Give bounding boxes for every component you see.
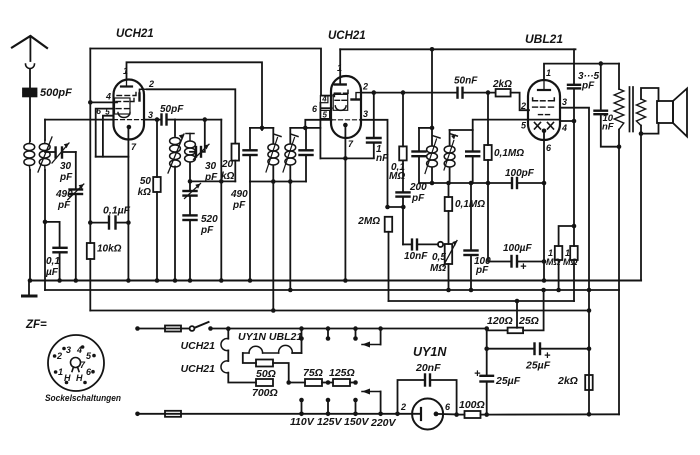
wire mains top [135, 326, 140, 331]
grid dashes U3 [533, 98, 538, 101]
capacitor 50pF [160, 115, 162, 125]
speaker LS [657, 101, 673, 123]
capacitor IF1 right [305, 128, 307, 150]
capacitor 1nF [373, 93, 375, 137]
svg-text:20nF: 20nF [415, 362, 441, 374]
transformer core [629, 87, 631, 132]
svg-text:UCH21: UCH21 [181, 363, 216, 375]
pentode plate U3 [543, 80, 545, 90]
svg-text:6: 6 [312, 104, 318, 114]
wire IF1 top rail right [290, 127, 320, 129]
capacitor 520pF [184, 214, 197, 216]
node pin2 [395, 412, 400, 417]
svg-text:0,5: 0,5 [432, 252, 446, 263]
wire mains top continues [211, 328, 487, 330]
svg-text:25µF: 25µF [495, 375, 521, 387]
heater UCH21 b [221, 361, 228, 373]
wire tank row [190, 180, 235, 182]
node pin4 junction [88, 100, 93, 105]
wire pin7 cathode down [127, 127, 129, 281]
svg-text:6: 6 [96, 106, 101, 116]
node [43, 220, 48, 225]
wire secondary to speaker [641, 88, 659, 101]
svg-text:7: 7 [131, 142, 137, 152]
capacitor 25uF lower [486, 329, 488, 376]
svg-text:pF: pF [232, 200, 246, 211]
tube U4 UY1N [412, 399, 443, 430]
triode plate U2 [335, 83, 346, 85]
svg-text:1: 1 [58, 367, 63, 377]
wire antenna to coil [29, 97, 31, 142]
wire IF2 top rail left [419, 127, 432, 129]
pin 3 dashed through tube [114, 119, 145, 121]
resistor 2k output [585, 375, 593, 390]
resistor 125 [333, 379, 350, 386]
svg-text:6: 6 [546, 143, 552, 153]
svg-text:7: 7 [348, 139, 354, 149]
svg-text:10kΩ: 10kΩ [97, 244, 122, 255]
svg-text:ZF=: ZF= [25, 319, 47, 331]
wire 0,1M col to 100uF row [488, 183, 510, 262]
svg-text:MΩ: MΩ [563, 257, 578, 267]
svg-text:UCH21: UCH21 [328, 30, 366, 42]
svg-text:kΩ: kΩ [221, 171, 235, 182]
resistor 700 [256, 379, 273, 386]
selector arm bottom [380, 392, 382, 414]
svg-text:UCH21: UCH21 [181, 340, 216, 352]
svg-text:110V: 110V [290, 416, 315, 428]
node on grid column [88, 220, 93, 225]
selector arm top [380, 329, 382, 345]
svg-text:2: 2 [400, 402, 406, 412]
wire osc loop right [220, 120, 222, 281]
svg-text:2MΩ: 2MΩ [357, 216, 380, 227]
svg-text:120Ω: 120Ω [487, 315, 513, 327]
svg-text:pF: pF [59, 172, 73, 183]
capacitor IF1 left [249, 128, 251, 150]
transformer T secondary zigzag [636, 99, 645, 126]
resistor 0,1M det [445, 197, 453, 211]
wire 25uF2 row [487, 348, 533, 350]
svg-text:4: 4 [105, 92, 111, 102]
hexode box U2 [333, 94, 348, 110]
pin 3 wire [560, 108, 589, 415]
capacitor IF2 left [418, 128, 420, 151]
svg-text:pF: pF [200, 225, 214, 236]
svg-text:520: 520 [201, 214, 218, 225]
svg-text:50: 50 [140, 176, 152, 187]
pin 6 wire U2 [320, 107, 331, 109]
resistor 20k [232, 144, 240, 161]
svg-text:UY1N: UY1N [413, 345, 447, 359]
tube U1 UCH21 envelope [114, 80, 145, 140]
node output line [587, 412, 592, 417]
tube U3 UBL21 envelope [528, 80, 560, 140]
svg-text:+: + [474, 368, 481, 380]
svg-text:2kΩ: 2kΩ [492, 79, 512, 90]
svg-text:25Ω: 25Ω [518, 315, 539, 327]
wire detector line y=183 [419, 182, 511, 184]
svg-text:2kΩ: 2kΩ [557, 375, 578, 387]
svg-text:pF: pF [411, 193, 425, 204]
wire dropper row [289, 382, 305, 384]
wire pin2 out [361, 92, 458, 94]
transformer T primary zigzag [614, 89, 624, 130]
wire IF1 secondary to bus B [289, 182, 291, 291]
wire pin2 to 20k [147, 89, 235, 143]
svg-text:75Ω: 75Ω [303, 367, 323, 379]
coil L2 antenna secondary [39, 144, 50, 151]
pin 4 wire U2 [321, 95, 332, 97]
coil IF1 primary [272, 128, 274, 144]
capacitor 100pF series [511, 178, 513, 188]
svg-text:100µF: 100µF [503, 243, 532, 254]
wire grid line to osc coil [175, 119, 221, 121]
svg-text:100Ω: 100Ω [459, 399, 485, 411]
capacitor 100uF [510, 256, 512, 267]
node grid line / 50pF [155, 117, 160, 122]
svg-text:490: 490 [55, 189, 73, 200]
svg-text:3: 3 [66, 345, 71, 355]
coil IF2 primary [431, 128, 433, 146]
grid dashes U2 [336, 92, 341, 94]
svg-text:2: 2 [362, 82, 368, 92]
capacitor 200pF [397, 191, 410, 193]
coil IF2 secondary [449, 130, 451, 146]
wire pin7 down [344, 124, 346, 281]
svg-text:UY1N UBL21: UY1N UBL21 [238, 331, 302, 343]
capacitor 500pF [23, 89, 37, 92]
node [74, 278, 79, 283]
svg-text:Sockelschaltungen: Sockelschaltungen [45, 393, 121, 404]
svg-text:pF: pF [57, 200, 71, 211]
wire secondary to pin5 [473, 120, 559, 130]
svg-text:0,1: 0,1 [46, 256, 60, 267]
coil L4 osc secondary [186, 133, 194, 135]
wire B+ output row [487, 413, 619, 415]
hexode grids U1 [116, 101, 121, 103]
ground [28, 281, 30, 295]
svg-text:5: 5 [86, 351, 92, 361]
svg-text:4: 4 [561, 123, 567, 133]
wire coil to ground bus [29, 170, 31, 281]
switch S [190, 326, 195, 331]
plate bar U2 pin2 [352, 98, 361, 100]
wire IF1 left cap to ground [249, 182, 251, 281]
socket circle [48, 335, 104, 391]
capacitor 50nF [456, 88, 458, 98]
voltage stubs bottom [301, 400, 303, 414]
capacitor 100pF to bus [470, 183, 472, 250]
antenna [12, 36, 47, 48]
svg-text:pF: pF [475, 265, 489, 276]
tube U2 UCH21 envelope [331, 76, 361, 138]
wire coil L2 top to grid line [44, 120, 46, 140]
wire grid coupling line y=222.6 [90, 222, 109, 224]
voltage selector stubs top [301, 329, 303, 339]
coil L3 osc primary [174, 120, 176, 136]
wire trimmer to padder [75, 152, 77, 189]
svg-text:MΩ: MΩ [546, 257, 561, 267]
resistor 120/25 tapped [508, 328, 523, 334]
svg-text:220V: 220V [370, 417, 397, 429]
wire secondary bottom to ground bus [640, 134, 642, 281]
wire grid line to tube2 [305, 120, 331, 128]
resistor 10k [87, 243, 95, 259]
capacitor 490pF padder [70, 188, 83, 190]
node top bus right [599, 61, 604, 66]
svg-text:MΩ: MΩ [430, 263, 446, 274]
pin 5 wire [103, 116, 114, 157]
svg-text:30: 30 [205, 161, 217, 172]
svg-text:1: 1 [337, 63, 342, 73]
grid dashes U1 [117, 95, 122, 97]
resistor 0,1M pin2 [402, 93, 404, 147]
resistor 1M left [559, 226, 574, 246]
wire padder to ground bus [75, 194, 77, 281]
wire pin1 top [127, 62, 263, 130]
wire ground bus [29, 279, 641, 281]
wire grid line y=119.6 [45, 119, 113, 121]
capacitor 10nF tone [600, 64, 602, 110]
wire 10k to bus C [89, 259, 91, 311]
resistor 75 [305, 379, 322, 386]
svg-text:1: 1 [546, 68, 551, 78]
svg-text:MΩ: MΩ [389, 171, 405, 182]
cathode U3 [542, 129, 547, 134]
wire bus D [389, 300, 575, 302]
resistor 100 [457, 414, 465, 416]
wire primary bottom down [618, 130, 620, 147]
fuse bottom [165, 411, 181, 417]
resistor 1M right [570, 246, 578, 260]
wire IF1 primary to bus C [272, 182, 274, 311]
wire pin4 col down [573, 121, 575, 246]
svg-text:6: 6 [86, 367, 92, 377]
capacitor 30pF trimmer [45, 151, 56, 153]
coil L1 antenna primary [24, 144, 35, 151]
capacitor 30pF osc trimmer [190, 151, 196, 153]
capacitor IF2 right [472, 130, 474, 151]
capacitor 20nF [398, 380, 425, 414]
cathode U1 [127, 125, 132, 130]
triode plate bar U1 pin2 [138, 94, 140, 101]
capacitor 490pF osc [184, 190, 197, 192]
node osc tank [188, 179, 193, 184]
svg-text:1: 1 [123, 66, 128, 76]
svg-text:UBL21: UBL21 [525, 32, 563, 46]
resistor 0,1M agc [487, 93, 489, 145]
svg-text:UCH21: UCH21 [116, 28, 154, 40]
potentiometer 0,5M wiper [438, 242, 443, 247]
resistor 2M [385, 217, 393, 232]
pin 5 wire U2 [320, 96, 328, 103]
diodes U3 [535, 123, 541, 130]
wire pin6 down [543, 131, 545, 281]
svg-text:3: 3 [562, 97, 567, 107]
pin 6 wire [96, 109, 114, 157]
svg-text:490: 490 [230, 189, 248, 200]
svg-text:2: 2 [520, 101, 526, 111]
svg-text:0,1µF: 0,1µF [103, 205, 131, 217]
capacitor 3..5pF [573, 49, 575, 84]
svg-text:30: 30 [60, 161, 72, 172]
svg-text:500pF: 500pF [40, 87, 72, 99]
svg-text:5: 5 [323, 111, 328, 120]
wire bus B [45, 289, 619, 291]
wire top bus segment A [90, 49, 321, 96]
svg-text:700Ω: 700Ω [252, 387, 278, 399]
svg-text:pF: pF [581, 81, 595, 92]
capacitor 10nF [411, 240, 413, 250]
resistor 50k [156, 120, 158, 177]
svg-text:3: 3 [148, 110, 153, 120]
capacitor 25uF upper [533, 344, 535, 355]
wire top right corner [618, 64, 620, 89]
wire coil L2 bottom down to bus B [44, 170, 46, 290]
svg-text:50nF: 50nF [454, 76, 478, 87]
wire osc grid column [89, 49, 91, 244]
pin 4 wire [560, 120, 574, 122]
svg-text:150V: 150V [344, 416, 370, 428]
cathode U2 [343, 123, 348, 128]
heater UCH21 a [227, 329, 229, 339]
svg-text:5: 5 [521, 121, 527, 131]
svg-text:H: H [64, 373, 71, 383]
svg-text:25µF: 25µF [525, 360, 551, 372]
wire IF2 top rail right [450, 129, 473, 131]
triode plate U1 [126, 79, 128, 87]
capacitor 0,1uF series [108, 217, 110, 229]
wire top bus segment B [340, 48, 575, 50]
resistor 2k [496, 89, 511, 97]
potentiometer 0,5M [448, 211, 450, 244]
capacitor 0,1uF [59, 222, 61, 247]
wire cathode row y=158 [320, 157, 373, 159]
svg-text:20: 20 [221, 159, 234, 170]
svg-text:5: 5 [105, 108, 110, 117]
wire 10nF row [403, 243, 411, 245]
pin 3 wire U2 [332, 119, 361, 121]
pin 4 wire [90, 101, 117, 103]
svg-text:10nF: 10nF [404, 251, 428, 262]
wire 2k to pin2 U3 [511, 93, 529, 111]
svg-text:H: H [76, 373, 83, 383]
node heater tap [226, 326, 231, 331]
svg-text:100pF: 100pF [505, 168, 535, 179]
fuse top [165, 326, 181, 332]
wire feed from top bus [431, 49, 433, 128]
wire pin1 top [544, 64, 619, 80]
svg-text:2: 2 [148, 79, 154, 89]
svg-text:nF: nF [602, 122, 614, 133]
svg-text:+: + [520, 261, 527, 273]
svg-text:4: 4 [76, 345, 82, 355]
wire pin1 [339, 49, 341, 84]
node ground bus left [28, 278, 33, 283]
svg-text:50pF: 50pF [160, 104, 184, 115]
wire bus C [90, 310, 589, 312]
svg-text:6: 6 [445, 402, 451, 412]
svg-text:µF: µF [45, 267, 59, 278]
coil IF1 secondary [289, 128, 291, 144]
svg-text:3: 3 [363, 109, 368, 119]
wire mains bottom [135, 412, 140, 417]
svg-text:125V: 125V [317, 416, 343, 428]
wire IF1 bottom rail [250, 181, 306, 183]
node grid junction [401, 205, 406, 210]
resistor 50 [256, 360, 273, 367]
wire IF1 top rail left [250, 127, 273, 129]
svg-text:125Ω: 125Ω [329, 367, 355, 379]
svg-text:nF: nF [376, 153, 389, 164]
svg-text:0,1MΩ: 0,1MΩ [494, 148, 524, 159]
wire AVC line y=221.9 [45, 221, 60, 223]
svg-text:2: 2 [56, 351, 62, 361]
svg-text:kΩ: kΩ [138, 187, 152, 198]
